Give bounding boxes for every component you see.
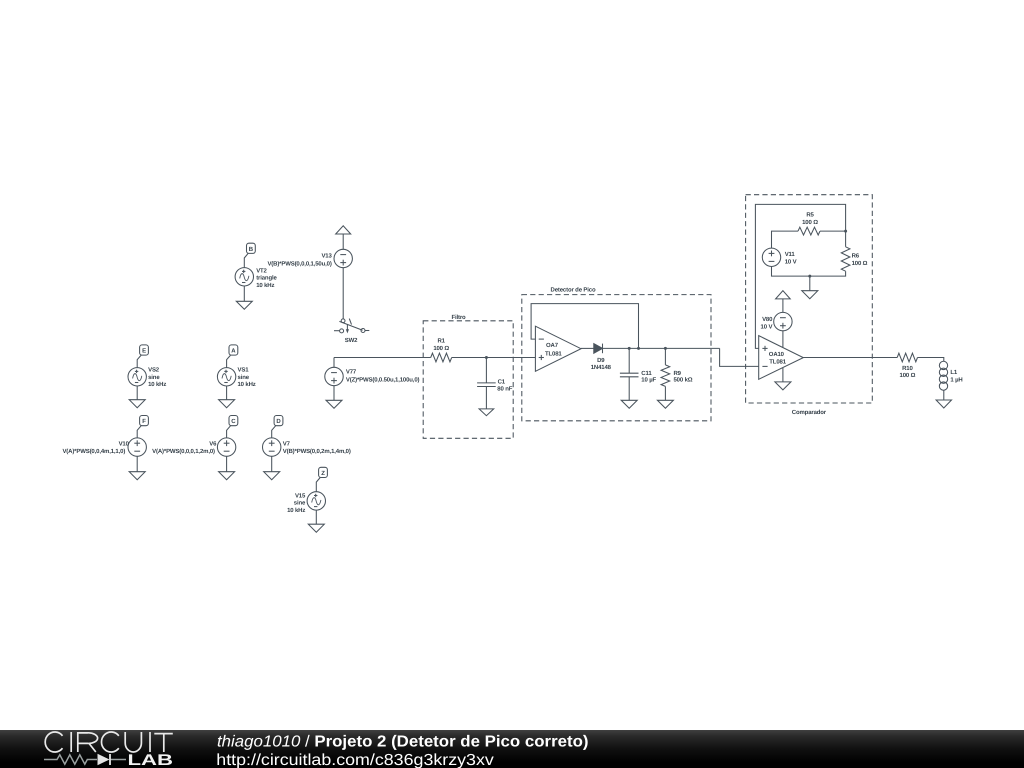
svg-text:Filtro: Filtro bbox=[451, 314, 466, 321]
svg-text:10 kHz: 10 kHz bbox=[256, 282, 274, 289]
svg-text:sine: sine bbox=[238, 374, 250, 381]
svg-text:D9: D9 bbox=[597, 357, 605, 364]
svg-text:V15: V15 bbox=[295, 492, 306, 499]
svg-text:V(B)*PWS(0,0,2m,1,4m,0): V(B)*PWS(0,0,2m,1,4m,0) bbox=[283, 448, 351, 455]
svg-text:10 kHz: 10 kHz bbox=[287, 507, 305, 514]
svg-text:LAB: LAB bbox=[128, 752, 174, 768]
svg-text:R6: R6 bbox=[852, 253, 860, 260]
svg-text:B: B bbox=[249, 246, 254, 253]
svg-text:V(B)*PWS(0,0,0,1,50u,0): V(B)*PWS(0,0,0,1,50u,0) bbox=[267, 260, 331, 267]
svg-text:Z: Z bbox=[321, 470, 325, 477]
svg-text:1 µH: 1 µH bbox=[950, 377, 962, 384]
svg-text:100 Ω: 100 Ω bbox=[900, 372, 916, 379]
svg-text:100 Ω: 100 Ω bbox=[852, 260, 868, 267]
svg-text:SW2: SW2 bbox=[345, 337, 358, 344]
svg-text:R10: R10 bbox=[902, 365, 913, 372]
svg-text:V11: V11 bbox=[785, 251, 796, 258]
svg-text:C1: C1 bbox=[498, 378, 506, 385]
svg-text:VT2: VT2 bbox=[256, 267, 267, 274]
svg-text:OA10: OA10 bbox=[769, 351, 785, 358]
svg-text:V13: V13 bbox=[321, 253, 332, 260]
svg-text:R1: R1 bbox=[438, 337, 446, 344]
svg-text:10 µF: 10 µF bbox=[641, 377, 656, 384]
svg-text:R5: R5 bbox=[806, 212, 814, 219]
svg-text:F: F bbox=[142, 418, 146, 425]
svg-text:sine: sine bbox=[148, 374, 160, 381]
svg-text:A: A bbox=[231, 348, 236, 355]
svg-text:http://circuitlab.com/c836g3kr: http://circuitlab.com/c836g3krzy3xv bbox=[216, 752, 494, 768]
svg-text:V(A)*PWS(0,0,4m,1,1,0): V(A)*PWS(0,0,4m,1,1,0) bbox=[62, 448, 125, 455]
svg-text:V(Z)*PWS(0,0.50u,1,100u,0): V(Z)*PWS(0,0.50u,1,100u,0) bbox=[346, 377, 420, 384]
svg-text:1N4148: 1N4148 bbox=[591, 364, 612, 371]
svg-text:L1: L1 bbox=[950, 369, 958, 376]
svg-text:R9: R9 bbox=[674, 370, 682, 377]
svg-text:V6: V6 bbox=[209, 440, 217, 447]
svg-text:80 nF: 80 nF bbox=[497, 386, 512, 393]
svg-text:100 Ω: 100 Ω bbox=[802, 219, 818, 226]
svg-text:C11: C11 bbox=[641, 370, 652, 377]
svg-text:C: C bbox=[231, 418, 236, 425]
svg-text:100 Ω: 100 Ω bbox=[433, 345, 449, 352]
svg-text:10 kHz: 10 kHz bbox=[148, 381, 166, 388]
svg-text:E: E bbox=[142, 348, 146, 355]
svg-text:10 V: 10 V bbox=[761, 324, 773, 331]
svg-text:TL081: TL081 bbox=[545, 351, 562, 358]
svg-text:TL081: TL081 bbox=[769, 359, 786, 366]
svg-text:10 kHz: 10 kHz bbox=[238, 381, 256, 388]
svg-text:500 kΩ: 500 kΩ bbox=[674, 377, 693, 384]
svg-text:Comparador: Comparador bbox=[792, 409, 827, 416]
svg-text:thiago1010 / Projeto 2 (Deteto: thiago1010 / Projeto 2 (Detetor de Pico … bbox=[217, 733, 589, 750]
svg-text:OA7: OA7 bbox=[546, 342, 559, 349]
svg-text:V77: V77 bbox=[346, 368, 357, 375]
svg-text:sine: sine bbox=[294, 500, 306, 507]
svg-text:V(A)*PWS(0,0,0,1,2m,0): V(A)*PWS(0,0,0,1,2m,0) bbox=[152, 448, 215, 455]
svg-text:10 V: 10 V bbox=[785, 258, 797, 265]
svg-text:V80: V80 bbox=[762, 316, 773, 323]
svg-text:Detector de Pico: Detector de Pico bbox=[551, 287, 596, 294]
svg-text:V10: V10 bbox=[119, 440, 130, 447]
svg-text:D: D bbox=[276, 418, 281, 425]
svg-text:VS2: VS2 bbox=[148, 367, 160, 374]
svg-text:VS1: VS1 bbox=[238, 367, 250, 374]
svg-text:V7: V7 bbox=[283, 440, 291, 447]
svg-text:triangle: triangle bbox=[256, 275, 277, 282]
